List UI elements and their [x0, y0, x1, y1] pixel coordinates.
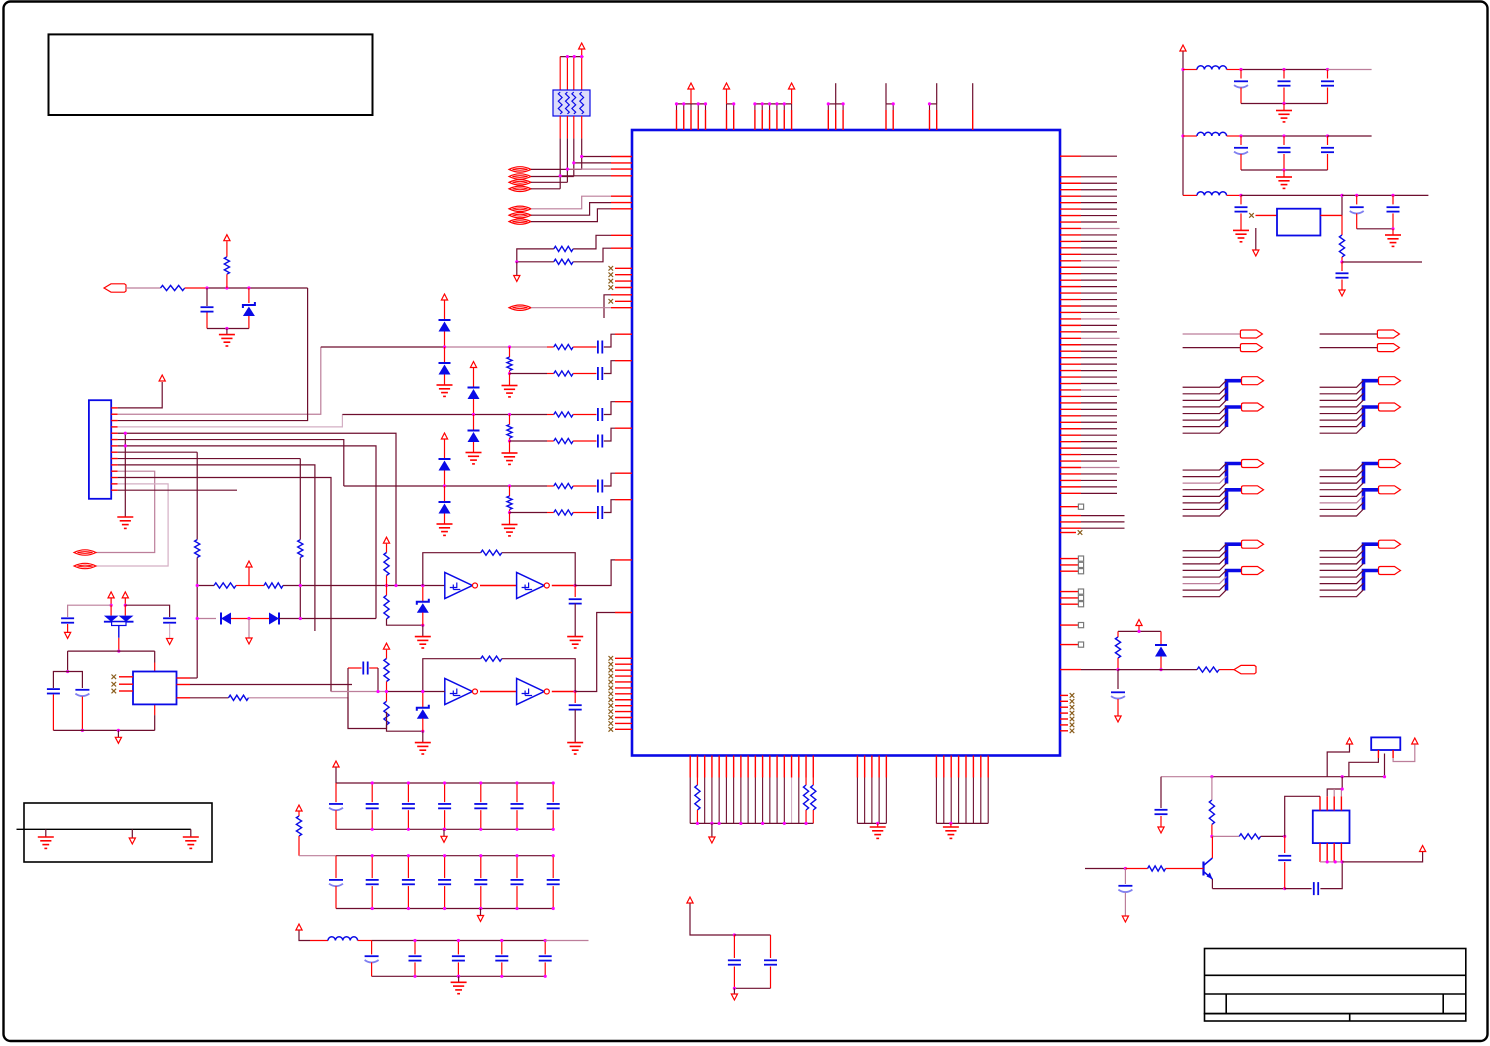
regulator U2 [1277, 209, 1320, 236]
junction [768, 102, 771, 105]
wire [1211, 836, 1213, 858]
junction [1282, 102, 1285, 105]
capacitor C26 [329, 803, 343, 805]
wire [154, 704, 156, 715]
junction [508, 372, 511, 375]
bus segment [1227, 464, 1242, 484]
wire [335, 768, 337, 784]
pin [711, 756, 713, 778]
pin [1060, 402, 1081, 404]
wire [474, 585, 476, 587]
capacitor C3 [597, 367, 599, 380]
pin [740, 756, 742, 778]
wire rail [336, 855, 553, 857]
wire [567, 168, 611, 170]
pin [980, 756, 982, 778]
wire [110, 598, 112, 605]
wire [185, 287, 207, 289]
pin [1060, 479, 1081, 481]
wire [509, 513, 511, 525]
ground [117, 517, 133, 528]
wire [407, 886, 409, 908]
pin [950, 756, 952, 778]
wire fb [423, 659, 481, 692]
wire [1138, 626, 1140, 631]
junction [117, 729, 120, 732]
wire [1081, 515, 1125, 517]
wire [1081, 383, 1117, 385]
pin [1060, 311, 1081, 313]
power symbol [470, 362, 476, 368]
ground reference box [24, 803, 212, 862]
pin [1319, 796, 1321, 810]
wire [509, 486, 511, 496]
pin [119, 690, 133, 692]
bus entry wire [1183, 483, 1227, 490]
bus segment [1364, 490, 1379, 510]
wire rail [336, 782, 553, 784]
bus segment [1364, 381, 1379, 401]
junction [421, 690, 424, 693]
ground [183, 837, 199, 848]
wire [1081, 402, 1117, 404]
wire rail [207, 287, 308, 289]
pin [783, 110, 785, 130]
wire [510, 512, 548, 514]
power ground [167, 639, 173, 645]
bus entry wire [1183, 420, 1227, 427]
pin [1060, 363, 1081, 365]
wire [118, 451, 198, 453]
resistor R25 [1115, 637, 1120, 658]
wire [1211, 824, 1213, 836]
pin [812, 756, 814, 778]
pin [611, 234, 632, 236]
pin [776, 110, 778, 130]
wire [407, 810, 409, 829]
wire [1125, 868, 1147, 870]
wire [118, 478, 331, 692]
ground [567, 743, 583, 754]
bus entry wire [1320, 426, 1364, 433]
resistor R15 [298, 540, 303, 558]
capacitor C42 [452, 955, 465, 957]
wire [444, 471, 446, 487]
wire [1183, 135, 1197, 137]
ground [870, 827, 886, 838]
junction [573, 55, 576, 58]
capacitor C8 [61, 617, 74, 619]
pin [1060, 467, 1081, 469]
wire [1283, 70, 1285, 79]
wire [299, 931, 310, 941]
pin [769, 756, 771, 778]
junction [1341, 787, 1344, 790]
pin [615, 287, 632, 289]
wire rail [207, 328, 249, 330]
wire [812, 778, 814, 786]
ground [502, 386, 518, 397]
wire [422, 692, 424, 708]
bus entry wire [1320, 496, 1364, 503]
capacitor C28 [402, 803, 415, 805]
wire [118, 626, 120, 638]
bus entry wire [1320, 400, 1364, 407]
wire [972, 83, 974, 110]
pin [892, 110, 894, 130]
pin [111, 483, 117, 485]
capacitor C6 [597, 480, 599, 493]
junction [457, 975, 460, 978]
wire [422, 625, 424, 636]
wire [531, 203, 611, 216]
wire rail [936, 822, 988, 824]
pin [1060, 527, 1081, 529]
power symbol [688, 83, 694, 89]
wire [573, 485, 596, 487]
resistor R12 [507, 496, 512, 510]
diode D12 [1155, 644, 1167, 646]
wire [1160, 657, 1162, 670]
bus entry wire [1183, 563, 1227, 570]
wire [386, 650, 388, 659]
bus entry wire [1320, 563, 1364, 570]
no-connect [1070, 717, 1075, 722]
junction [732, 102, 735, 105]
junction [552, 828, 555, 831]
pin [615, 360, 632, 362]
pin [615, 728, 632, 730]
input port [104, 284, 126, 292]
diode D9 [269, 613, 279, 625]
wire [1081, 247, 1117, 249]
pin [1060, 189, 1081, 191]
junction [1283, 887, 1286, 890]
bus entry wire [1183, 413, 1227, 420]
no-connect [1078, 530, 1083, 535]
pin [1060, 506, 1078, 508]
wire [531, 196, 611, 209]
wire [1081, 521, 1125, 523]
diode D4 [468, 387, 480, 389]
wire [1284, 862, 1286, 889]
pin [615, 687, 632, 689]
pin [177, 684, 191, 686]
unconnected-square [1078, 623, 1083, 628]
unconnected-square [1078, 642, 1083, 647]
wire [1328, 135, 1372, 137]
wire [444, 783, 446, 802]
ground [567, 637, 583, 648]
diode D7 [439, 501, 451, 503]
junction [515, 781, 518, 784]
wire [1341, 215, 1343, 235]
wire [1327, 88, 1329, 104]
title box top-left [49, 34, 373, 115]
wire [206, 313, 208, 329]
wire [531, 188, 560, 190]
capacitor C12 [569, 598, 582, 600]
wire [407, 856, 409, 878]
pin [1060, 234, 1081, 236]
wire [509, 371, 511, 374]
wire rail [560, 56, 583, 58]
wire [444, 886, 446, 908]
bus segment [1364, 407, 1379, 427]
bus entry wire [1183, 544, 1227, 551]
junction [710, 822, 713, 825]
wire [473, 415, 475, 431]
power symbol [108, 592, 114, 598]
wire [1081, 208, 1117, 210]
wire [547, 512, 554, 514]
wire [118, 638, 120, 651]
pin [885, 110, 887, 130]
junction [371, 828, 374, 831]
wire [1240, 136, 1242, 145]
pin [1060, 597, 1078, 599]
pin [1060, 273, 1081, 275]
wire [1081, 331, 1117, 333]
pin [1060, 279, 1081, 281]
wire [1240, 195, 1242, 204]
junction [205, 286, 208, 289]
inductor L1 [1197, 66, 1227, 70]
power symbol [1412, 738, 1418, 744]
pin [791, 756, 793, 778]
wire [1285, 796, 1320, 836]
wire [1081, 286, 1117, 288]
connector pin port [509, 186, 531, 191]
wire [1211, 777, 1213, 800]
wire [552, 783, 554, 802]
junction [733, 933, 736, 936]
pin [987, 756, 989, 778]
junction [500, 975, 503, 978]
pin [683, 110, 685, 130]
pin [1060, 247, 1081, 249]
ground [437, 524, 453, 535]
pin [1060, 558, 1078, 560]
wire rail [336, 828, 553, 830]
capacitor C27 [366, 803, 379, 805]
junction [775, 102, 778, 105]
wire [298, 836, 300, 856]
junction [479, 907, 482, 910]
pin [827, 110, 829, 130]
wire [371, 856, 373, 878]
pin [1060, 215, 1081, 217]
wire [1261, 835, 1285, 837]
wire [510, 485, 548, 487]
capacitor C11 [75, 689, 89, 691]
bus entry wire [1183, 590, 1227, 597]
pin [1060, 305, 1081, 307]
capacitor C34 [366, 879, 379, 881]
wire [581, 116, 583, 138]
capacitor C32 [547, 803, 560, 805]
wire rail [1212, 776, 1385, 778]
bus entry wire [1183, 489, 1227, 496]
wire [1255, 228, 1257, 250]
capacitor C1 [201, 306, 214, 308]
wire [573, 414, 596, 416]
capacitor C4 [597, 408, 599, 421]
junction [515, 260, 518, 263]
wire rail [1241, 103, 1328, 105]
wire rail [857, 822, 886, 824]
wire [231, 618, 249, 620]
wire [190, 697, 229, 699]
wire rail [1161, 776, 1212, 778]
junction [1355, 194, 1358, 197]
no-connect [609, 703, 614, 708]
wire [422, 731, 424, 742]
wire [377, 668, 379, 692]
junction [515, 854, 518, 857]
pin [704, 756, 706, 778]
wire [1081, 473, 1117, 475]
junction [443, 828, 446, 831]
pin [1320, 214, 1342, 216]
capacitor C14 [362, 662, 364, 675]
wire [118, 288, 308, 421]
bus segment [1227, 381, 1242, 401]
pin [611, 195, 632, 197]
capacitor C46 [764, 959, 777, 961]
pin [1060, 570, 1078, 572]
wire [559, 116, 561, 138]
junction [1181, 134, 1184, 137]
resistor R30 [811, 785, 816, 810]
wire rail [1118, 630, 1161, 632]
junction [508, 439, 511, 442]
wire [1117, 670, 1119, 689]
capacitor C22 [1235, 206, 1248, 208]
no-connect [609, 692, 614, 697]
wire [458, 976, 460, 982]
wire [573, 373, 596, 375]
wire [67, 624, 69, 632]
wire [480, 909, 482, 916]
wire [501, 941, 503, 955]
wire [573, 138, 575, 176]
wire [573, 57, 575, 90]
pin [111, 458, 117, 460]
wire [53, 672, 67, 689]
junction [1124, 867, 1127, 870]
junction [1341, 775, 1344, 778]
ground [502, 525, 518, 536]
wire [444, 810, 446, 829]
wire [1356, 195, 1358, 204]
wire rail [734, 934, 770, 936]
junction [407, 781, 410, 784]
junction [508, 484, 511, 487]
junction [508, 511, 511, 514]
pin [871, 756, 873, 778]
wire [604, 473, 615, 486]
no-connect [609, 285, 614, 290]
pin [611, 156, 632, 158]
bus entry wire [1320, 544, 1364, 551]
capacitor C47 [1155, 809, 1168, 811]
junction [407, 907, 410, 910]
wire [1160, 631, 1162, 645]
wire [457, 941, 459, 955]
wire [358, 940, 372, 942]
pin [1060, 644, 1078, 646]
junction [385, 584, 388, 587]
resistor R14 [195, 540, 200, 558]
wire [1283, 88, 1285, 104]
wire [547, 485, 554, 487]
wire [566, 57, 568, 90]
no-connect [1070, 723, 1075, 728]
wire [81, 697, 83, 731]
wire [531, 168, 582, 170]
bus segment [1364, 464, 1379, 484]
wire [249, 698, 349, 729]
pin [1340, 796, 1342, 810]
junction [371, 781, 374, 784]
capacitor C37 [474, 879, 487, 881]
junction [472, 413, 475, 416]
pin [1060, 428, 1081, 430]
wire [509, 415, 511, 425]
pin [111, 489, 117, 491]
wire [574, 586, 576, 598]
wire [1327, 745, 1349, 777]
pin [1060, 337, 1081, 339]
pin [1060, 176, 1081, 178]
pin [972, 110, 974, 130]
wire [510, 373, 548, 375]
pin [611, 168, 632, 170]
wire rail [734, 987, 770, 989]
wire rail [727, 103, 734, 105]
junction [394, 584, 397, 587]
junction [1159, 668, 1162, 671]
wire [1081, 311, 1117, 313]
zener diode D11 [417, 705, 429, 711]
bus entry wire [1183, 509, 1227, 516]
junction [704, 102, 707, 105]
wire [531, 307, 611, 309]
resistor R16 [214, 583, 236, 588]
wire [1081, 273, 1117, 275]
junction [299, 617, 302, 620]
wire [1081, 363, 1117, 365]
ground [502, 453, 518, 464]
pin [761, 110, 763, 130]
wire [791, 90, 793, 104]
junction [761, 822, 764, 825]
pin [776, 756, 778, 778]
pin [805, 756, 807, 778]
pin [718, 756, 720, 778]
resistor R10 [554, 438, 573, 443]
wire [516, 886, 518, 908]
schmitt buffer U [517, 572, 545, 598]
bus port [1242, 460, 1264, 468]
power symbol [224, 235, 230, 241]
wire [124, 598, 126, 605]
pin [1377, 750, 1379, 758]
power symbol [579, 43, 585, 49]
wire [1081, 227, 1120, 229]
wire [1240, 213, 1242, 230]
